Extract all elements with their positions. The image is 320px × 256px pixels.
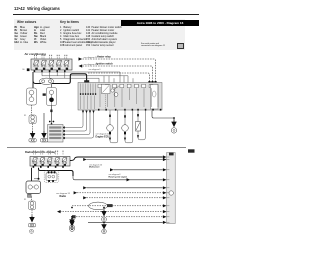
earth point legend note: [141, 43, 165, 48]
earth arrow mid band: [102, 210, 106, 216]
radio supply vertical wire: [31, 168, 33, 181]
wire: thick feed with step to grey box: [36, 74, 87, 84]
key to items heading: [60, 20, 79, 24]
svg-text:Road speed signal: Road speed signal: [109, 176, 128, 178]
junction dots on rows: [71, 207, 105, 220]
earth drop row10: [71, 217, 73, 219]
grey box internal switch: [111, 89, 114, 92]
svg-text:30: 30: [22, 69, 25, 71]
key to items list column 1 numbers: [60, 26, 64, 47]
wire: S2 to feed: [51, 84, 53, 89]
wire: dashed drop to box: [88, 73, 150, 81]
svg-text:Radio: Radio: [60, 195, 67, 198]
switch under box: [136, 110, 146, 140]
grey box internal contacts: [98, 84, 158, 109]
wire colour abbreviations column 2: [34, 26, 39, 44]
earth strap symbol middle: [40, 139, 47, 142]
earth ring row10: [70, 225, 75, 230]
blower resistor pack: [48, 125, 63, 143]
wire row 6 dashed: [77, 192, 163, 194]
fuse strip F2 lower terminals: [33, 166, 64, 168]
connector label on S2 wire: [43, 93, 46, 95]
radio cassette unit: [26, 181, 41, 194]
row 6 continuation arrow: [74, 191, 78, 194]
thick feed wire to radio: [39, 168, 74, 176]
thermo switch lower left: [29, 105, 36, 124]
MID box header label: [169, 153, 174, 156]
earth strap symbol radio: [28, 224, 35, 227]
earth point legend symbol box: [177, 43, 184, 50]
grey box left internal wires: [81, 84, 96, 110]
connector terminal 30 left of F1: [22, 68, 29, 71]
junction dot at radio top: [38, 178, 40, 180]
wire row 2 paired: [87, 159, 163, 161]
junction dots on rows: [71, 216, 105, 223]
row 5 continuation arrow: [83, 186, 86, 189]
connector X6 on feed wire: [84, 80, 89, 83]
wire row 1 thick supply: [70, 157, 163, 161]
title bar: [121, 20, 199, 27]
wire row 7 dashed: [87, 197, 163, 199]
wire: dashed to earth radio: [31, 210, 33, 216]
MID wire arrowheads: [163, 155, 167, 224]
earth ring row11: [70, 227, 75, 232]
key to items list column 2 text: [92, 26, 122, 47]
wire colour names column 1: [20, 26, 28, 44]
row 3 continuation arrow: [110, 168, 114, 171]
fuse strip F1 pin numbers row: [34, 55, 67, 56]
svg-text:Ignition switch: Ignition switch: [96, 62, 113, 65]
earth ring radio chain: [29, 229, 33, 233]
key to items list column 2 numbers: [86, 26, 90, 47]
earth arrow radio: [30, 216, 34, 222]
earth drop mid band: [103, 222, 105, 223]
fuse strip F1 lower terminals: [34, 70, 66, 72]
wire colours heading: [17, 20, 36, 24]
row 2 continuation arrow: [83, 158, 86, 161]
row 10 connector label: [72, 215, 76, 218]
wire: middle earth drop: [43, 113, 45, 131]
wire: switch to resistor dots: [49, 106, 54, 125]
screened cable loop: [89, 202, 108, 210]
label 125 right of MID: [188, 149, 195, 152]
heater control unit grey box: [78, 83, 162, 111]
sensor circle 1 under box: [107, 110, 118, 143]
wire row 5: [87, 187, 163, 189]
earth arrow row11: [70, 220, 74, 226]
wire from junction to radio: [34, 171, 39, 179]
earth ring mid band: [102, 217, 107, 222]
page header text: [14, 6, 60, 11]
wire row 11: [88, 221, 163, 223]
grey box internal relay: [102, 85, 111, 94]
sensor circle 2 under box: [122, 110, 133, 143]
wire end arrows to ECU: [109, 132, 139, 141]
svg-text:Heater relay: Heater relay: [97, 55, 111, 58]
row 7 continuation arrow: [83, 196, 86, 199]
svg-text:31: 31: [24, 199, 27, 201]
wire: dashed to earth left: [32, 124, 34, 131]
grey box internal terminal row: [80, 93, 96, 95]
svg-text:see diagram 12: see diagram 12: [84, 57, 99, 59]
wire: dashed ignition feed: [83, 66, 153, 81]
wire colour abbreviations column 1: [15, 26, 19, 44]
svg-text:Engine ECU: Engine ECU: [96, 136, 110, 139]
wire: dashed to heater relay: [83, 59, 156, 81]
wire row 8 dashed: [72, 205, 163, 207]
earth arrow middle: [42, 131, 46, 138]
row 4 mid arrow: [127, 178, 131, 181]
wire row 10 dashed: [76, 216, 163, 218]
earth strap symbol left: [29, 139, 36, 142]
earth drop mid band: [103, 208, 105, 210]
MID pin ticks: [167, 157, 170, 222]
wire row 3: [114, 169, 163, 171]
svg-text:31: 31: [24, 115, 27, 117]
aerial continuation arrow: [57, 210, 61, 213]
key panel background: [14, 19, 185, 50]
bus wires from F1 to grey box: [34, 72, 133, 83]
earth arrow right of box: [152, 111, 177, 133]
pressure switch assembly: [27, 88, 37, 105]
key to items list column 1 text: [64, 26, 92, 47]
svg-text:see diagram 5: see diagram 5: [89, 69, 102, 71]
earth drop row11: [71, 219, 73, 220]
separator line between diagrams: [7, 147, 186, 149]
svg-text:Air conditioning: Air conditioning: [25, 52, 47, 56]
clock connector unit: [44, 171, 59, 183]
radio lower connector: [28, 194, 32, 197]
connector blobs on sensor wires: [109, 114, 139, 118]
header rule: [13, 13, 199, 16]
wire row 9 dashed aerial: [60, 211, 163, 213]
earth ring mid band: [102, 229, 107, 234]
grey box internal dashed drop: [105, 95, 107, 110]
continuation arrow: ignition feed line: [79, 64, 83, 67]
wire row 4: [73, 176, 163, 180]
earth arrow left: [31, 131, 35, 138]
terminal dots on box top: [148, 81, 156, 84]
earth arrow row10: [70, 218, 74, 223]
grey box bottom pin dots: [98, 109, 161, 111]
inline connector oval on feed: [39, 78, 54, 84]
continuation arrow: heater relay line: [79, 57, 83, 60]
wires from box to blower resistor with down arrows: [62, 111, 95, 140]
fuse strip F2 pin numbers row: [33, 151, 64, 152]
wire: battery feed from F1 down: [33, 72, 36, 88]
earth arrow mid band: [102, 224, 106, 229]
MID connector circle: [169, 191, 173, 195]
A/C cut-out switch: [47, 88, 57, 106]
MID display unit box: [167, 153, 176, 224]
svg-text:Multi-timer: Multi-timer: [89, 166, 100, 169]
aerial amplifier: [29, 197, 36, 210]
fuse box strip F2: [30, 157, 70, 167]
wire colour names column 2: [40, 26, 50, 44]
row 8 connector label: [107, 204, 113, 207]
fuse box strip F1: [31, 59, 72, 70]
